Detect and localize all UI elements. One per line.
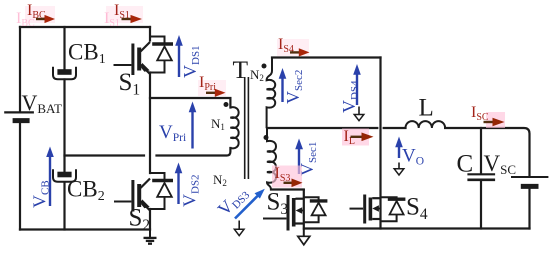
battery V_SC: [484, 151, 549, 186]
wire bottom output rail: [304, 227, 530, 229]
reference arrow (below V_DS4): [354, 107, 364, 121]
voltage label V_Sec2: [279, 68, 305, 104]
wire bottom-left bus: [20, 228, 150, 230]
wire half-bridge leg middle: [149, 73, 151, 174]
current label I_BC: [16, 2, 55, 29]
ground (below S2, bar style): [144, 230, 157, 244]
polarity dot secondary top: [262, 64, 267, 69]
wire left rail lower: [19, 122, 21, 230]
voltage label V_DS2: [175, 163, 202, 208]
capacitor CB2: [53, 169, 105, 204]
wire S4 leg: [379, 58, 381, 229]
svg-text:T: T: [233, 55, 249, 84]
capacitor CB1: [53, 40, 106, 80]
wire half-bridge leg upper: [149, 27, 151, 41]
transistor S2 (IGBT): [114, 179, 150, 235]
wire S1-S2 midpoint to primary top: [150, 98, 230, 108]
polarity dot primary: [224, 102, 229, 107]
transistor S4 (MOSFET): [350, 194, 428, 224]
voltage label V_CB: [30, 147, 54, 209]
diode D4 (S4 body diode): [381, 197, 406, 221]
transformer secondary winding N2 top: [267, 58, 276, 129]
voltage label V_Sec1: [295, 139, 319, 177]
diode D2 (S2 body diode): [150, 173, 173, 209]
current label I_SC: [471, 104, 505, 128]
wire inductor to V_SC: [445, 128, 529, 176]
voltage label V_DS1: [175, 35, 202, 78]
wire half-bridge leg lower: [149, 209, 151, 230]
wire CB branch middle: [63, 80, 65, 172]
wire C branch lower: [480, 181, 482, 228]
diode D3 (S3 body diode): [304, 197, 328, 222]
reference arrow (below V_O): [394, 163, 404, 176]
transistor S1 (IGBT): [114, 42, 151, 99]
svg-text:L: L: [419, 95, 434, 122]
battery V_BAT: [4, 90, 62, 121]
wire S3 leg: [303, 190, 305, 229]
polarity dot secondary bottom: [264, 135, 269, 140]
transistor S3 (MOSFET): [263, 189, 304, 231]
inductor L: [406, 95, 446, 129]
wire C branch upper: [480, 128, 482, 173]
wire top-left bus: [20, 26, 150, 28]
voltage label V_Pri: [159, 102, 196, 149]
wire CB branch upper: [63, 27, 65, 69]
wire secondary top to S4: [272, 56, 381, 58]
current label I_S3: [272, 165, 303, 188]
wire secondary bottom to S3: [271, 188, 304, 190]
voltage label V_DS3: [214, 182, 265, 221]
current label I_Pri: [198, 74, 226, 97]
wire center tap to inductor (gap at S4 leg crossing): [267, 127, 377, 129]
transformer T primary winding N1: [230, 107, 238, 148]
capacitor C: [457, 151, 496, 180]
current label I_S1: [104, 2, 143, 29]
reference arrow (below V_DS3): [234, 221, 244, 236]
ground (below S3, open triangle): [298, 229, 310, 245]
current label I_S4: [277, 36, 310, 57]
voltage label V_DS4: [339, 64, 361, 113]
diode D1 (S1 body diode): [150, 37, 173, 73]
wire V_SC bottom lead: [528, 189, 530, 229]
transformer secondary winding N2 bottom: [267, 128, 276, 190]
transformer core: [245, 77, 249, 179]
svg-text:C: C: [457, 151, 474, 178]
wire CB branch lower: [63, 183, 65, 230]
wire CB midpoint to primary bottom (gap hop at S leg): [65, 154, 145, 156]
current label I_L: [342, 128, 374, 147]
wire left rail upper: [19, 27, 21, 111]
voltage label V_O: [395, 137, 424, 168]
